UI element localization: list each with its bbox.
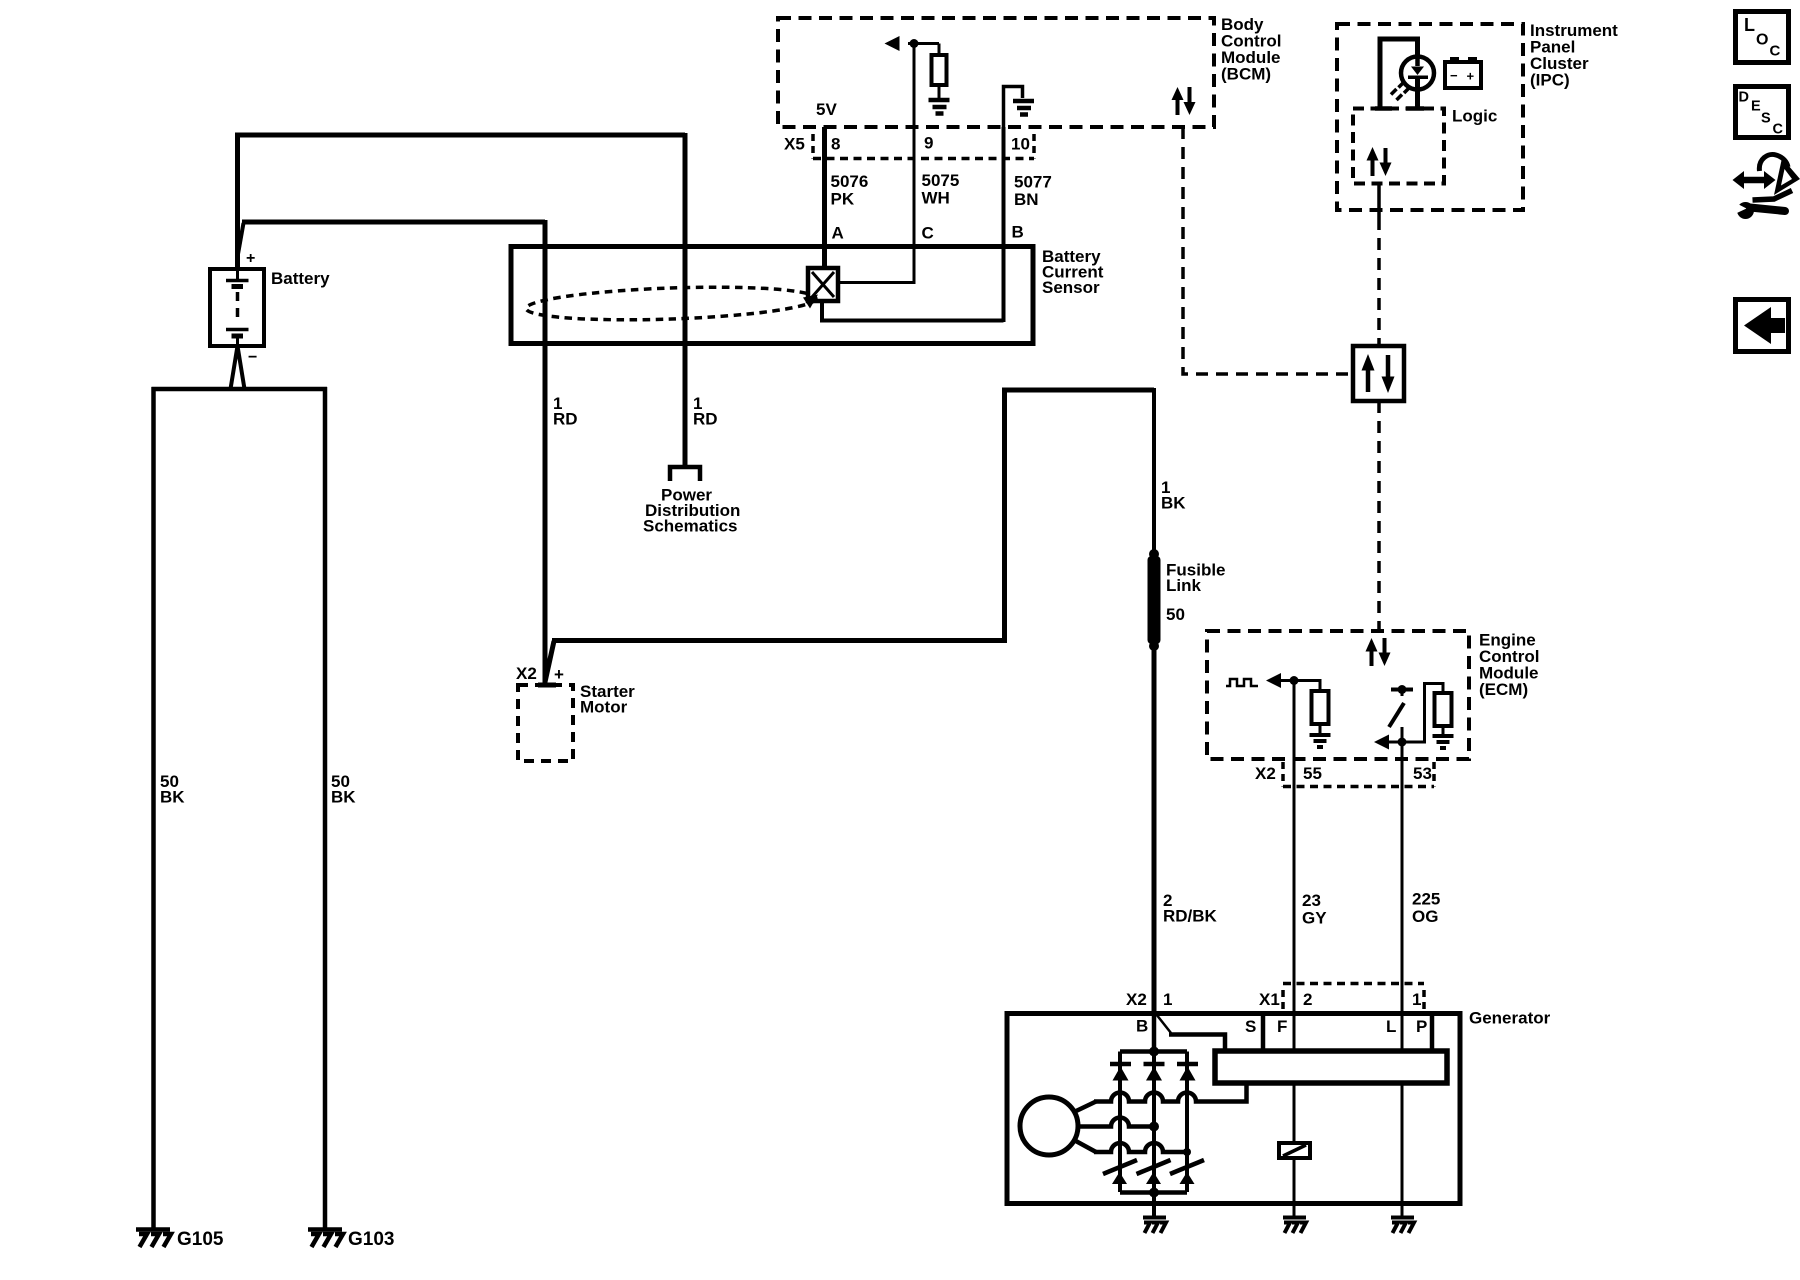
serial box arrows bbox=[1362, 354, 1395, 393]
bottom avalanche diode 3 bbox=[1170, 1160, 1204, 1184]
battery internal dashed line bbox=[236, 292, 240, 324]
svg-text:E: E bbox=[1751, 99, 1761, 115]
junction dot fusible link top bbox=[1149, 549, 1159, 559]
BCM internal wire arrow to junction bbox=[908, 42, 939, 45]
LED light rays bbox=[1399, 82, 1405, 88]
wire: pin 10 (5077 BN) BCM to sensor B bbox=[1002, 127, 1006, 322]
ECM connector dashed outline bbox=[1281, 762, 1285, 787]
DESC icon box bbox=[1736, 87, 1789, 138]
svg-text:225: 225 bbox=[1412, 890, 1440, 909]
battery negative lead bbox=[236, 337, 239, 347]
svg-text:−: − bbox=[1450, 68, 1458, 83]
svg-text:8: 8 bbox=[831, 135, 840, 154]
svg-text:S: S bbox=[1761, 111, 1771, 127]
wire: drop to fusible link 1 BK bbox=[1152, 388, 1156, 553]
svg-text:+: + bbox=[1467, 69, 1475, 84]
svg-text:Generator: Generator bbox=[1469, 1009, 1551, 1028]
wire: starter branch slant bbox=[545, 641, 554, 682]
generator ground 2 (field) bbox=[1283, 1218, 1306, 1234]
svg-text:X1: X1 bbox=[1259, 990, 1280, 1009]
wire: pin 9 (5075 WH) BCM to sensor C bbox=[913, 43, 916, 284]
sensor element box with X bbox=[808, 268, 838, 301]
rotor circle bbox=[1020, 1097, 1078, 1155]
wire: battery cable down to starter (1 RD) bbox=[543, 220, 548, 684]
junction dot pin 55 bbox=[1290, 676, 1299, 685]
internal B sense diagonal bbox=[1156, 1014, 1171, 1033]
generator ground 1 (diode bridge) bbox=[1143, 1218, 1166, 1234]
svg-text:5077: 5077 bbox=[1014, 173, 1052, 192]
wire: pin10 internal ground L bbox=[1004, 87, 1023, 129]
starter motor dashed box bbox=[518, 685, 573, 761]
svg-text:X2: X2 bbox=[516, 664, 537, 683]
service icon: double arrow bbox=[1733, 171, 1776, 189]
wire: sensor C internal to element bbox=[838, 281, 914, 284]
svg-text:Battery: Battery bbox=[271, 269, 330, 288]
svg-text:53: 53 bbox=[1413, 764, 1432, 783]
svg-text:G105: G105 bbox=[177, 1229, 224, 1250]
battery top cell short plate bbox=[232, 284, 244, 289]
diode column 1 bbox=[1118, 1052, 1122, 1193]
service icon: loop arrow hook bbox=[1759, 154, 1788, 171]
ECM ground symbol (left) bbox=[1310, 735, 1331, 747]
wire: 23 GY ECM pin 55 to generator bbox=[1293, 787, 1296, 1014]
svg-text:(ECM): (ECM) bbox=[1479, 680, 1528, 699]
svg-text:Schematics: Schematics bbox=[643, 517, 738, 536]
generator ground 3 (L/P) bbox=[1391, 1218, 1414, 1234]
svg-text:G103: G103 bbox=[348, 1229, 394, 1250]
svg-text:L: L bbox=[1744, 15, 1755, 35]
svg-text:1: 1 bbox=[1163, 990, 1172, 1009]
stator winding phase B (middle) bbox=[1077, 1118, 1154, 1127]
wire: regulator to field bbox=[1293, 1083, 1296, 1143]
generator box bbox=[1007, 1014, 1460, 1204]
battery plus terminal lead bbox=[236, 269, 239, 279]
ground G105 symbol bbox=[136, 1230, 171, 1248]
wire: battery negative crowsfoot right bbox=[238, 346, 245, 389]
svg-text:F: F bbox=[1277, 1017, 1287, 1036]
svg-text:(BCM): (BCM) bbox=[1221, 65, 1271, 84]
diode column 3 bbox=[1185, 1052, 1189, 1193]
BCM internal arrow (signal to logic) bbox=[885, 36, 900, 51]
svg-text:X2: X2 bbox=[1255, 764, 1276, 783]
svg-text:BN: BN bbox=[1014, 190, 1039, 209]
svg-text:P: P bbox=[1416, 1017, 1427, 1036]
top diode 1 bbox=[1110, 1064, 1131, 1081]
diode bridge top bus bbox=[1120, 1049, 1187, 1054]
junction dot pin9 sense bbox=[910, 39, 919, 48]
wire: field to case ground bbox=[1293, 1158, 1296, 1216]
ECM resistor (pin 55) bbox=[1312, 691, 1329, 724]
battery bottom cell short plate bbox=[232, 334, 244, 339]
fusible link 50 body bbox=[1148, 556, 1161, 644]
voltage regulator box bbox=[1215, 1051, 1447, 1083]
svg-text:Link: Link bbox=[1166, 576, 1201, 595]
bottom avalanche diode 1 bbox=[1103, 1160, 1137, 1184]
svg-text:WH: WH bbox=[922, 189, 950, 208]
LED down-arrow inside lamp bbox=[1415, 56, 1420, 66]
svg-text:10: 10 bbox=[1011, 135, 1030, 154]
sensor pickup arrowhead bbox=[803, 295, 818, 309]
wire: battery positive to top rail bbox=[235, 135, 240, 269]
ECM PWM arrow bbox=[1266, 673, 1281, 688]
svg-text:RD: RD bbox=[553, 410, 578, 429]
svg-text:O: O bbox=[1756, 32, 1768, 49]
BCM module dashed box bbox=[778, 18, 1214, 127]
svg-text:PK: PK bbox=[831, 190, 855, 209]
svg-text:(IPC): (IPC) bbox=[1530, 71, 1570, 90]
svg-text:+: + bbox=[554, 665, 564, 684]
wire: L/P through regulator bbox=[1401, 1014, 1404, 1051]
wire: 225 OG ECM pin 53 to generator bbox=[1401, 787, 1404, 1014]
svg-text:5V: 5V bbox=[816, 100, 837, 119]
IPC module dashed box bbox=[1337, 24, 1523, 210]
wire: resistor to ground right bbox=[1442, 726, 1445, 734]
rotor lead upper bbox=[1074, 1102, 1096, 1113]
back arrow icon box bbox=[1736, 300, 1789, 352]
wire: IPC logic to module edge bbox=[1377, 184, 1381, 219]
svg-text:9: 9 bbox=[924, 134, 933, 153]
svg-text:BK: BK bbox=[160, 788, 185, 807]
bottom avalanche diode 2 bbox=[1137, 1160, 1171, 1184]
wire: upper rail to fusible link bbox=[1002, 388, 1154, 393]
wire: ground bus horizontal bbox=[152, 387, 328, 392]
wire: resistor to ground bbox=[1319, 724, 1322, 733]
wire: arrow to junction to resistor corner bbox=[1279, 681, 1320, 692]
svg-text:X2: X2 bbox=[1126, 990, 1147, 1009]
junction dot fusible link bottom bbox=[1149, 641, 1159, 651]
wire: junction down to resistor bbox=[938, 44, 941, 57]
svg-text:L: L bbox=[1386, 1017, 1396, 1036]
lamp lead lower bbox=[1415, 79, 1420, 107]
terminal separator S|F bbox=[1261, 1014, 1266, 1051]
wire: sensor B internal path bbox=[822, 301, 1004, 321]
IPC serial data arrows bbox=[1367, 147, 1392, 176]
ECM resistor (pin 53) bbox=[1435, 693, 1452, 726]
LED cathode bar bbox=[1408, 76, 1428, 80]
BCM serial data arrows bbox=[1172, 87, 1196, 115]
wire: top rail to sensor feed bbox=[235, 133, 685, 138]
serial data dashed wire IPC down bbox=[1377, 218, 1381, 346]
svg-text:5076: 5076 bbox=[831, 172, 869, 191]
battery current sensor box bbox=[511, 247, 1033, 344]
wire: 2 RD/BK fusible link to generator bbox=[1152, 646, 1157, 1014]
ECM switch lever bbox=[1389, 703, 1404, 727]
top diode 2 bbox=[1144, 1064, 1165, 1081]
svg-text:Motor: Motor bbox=[580, 698, 628, 717]
ECM pin53 sense arrow bbox=[1374, 735, 1389, 750]
wire: pin53 branch to resistor bbox=[1387, 684, 1443, 743]
top diode 3 bbox=[1177, 1064, 1198, 1081]
ECM serial data arrows bbox=[1366, 638, 1391, 666]
wire: B cable into diode bridge bbox=[1152, 1014, 1157, 1051]
terminal separator P right bbox=[1430, 1014, 1435, 1051]
X5 connector dashed outline bbox=[811, 134, 815, 159]
junction dot pin 53 bbox=[1398, 738, 1407, 747]
ECM switch fixed contact bar bbox=[1391, 688, 1413, 692]
wire: second rail from battery positive bbox=[238, 223, 244, 254]
indicator lamp circle bbox=[1401, 57, 1434, 90]
wire: right ground drop 50 BK bbox=[323, 387, 328, 1228]
diode bridge bottom bus bbox=[1120, 1190, 1187, 1195]
sensor pickup dashed ellipse bbox=[526, 283, 817, 324]
battery B1 box bbox=[210, 269, 264, 346]
battery top cell long plate bbox=[226, 279, 249, 283]
BCM ground symbol (resistor) bbox=[929, 100, 950, 114]
X1 connector dashed outline bbox=[1281, 990, 1285, 1012]
svg-text:C: C bbox=[922, 224, 934, 243]
svg-text:55: 55 bbox=[1303, 764, 1322, 783]
wire: second rail horizontal bbox=[242, 220, 545, 225]
svg-text:RD: RD bbox=[693, 410, 718, 429]
svg-text:OG: OG bbox=[1412, 907, 1438, 926]
service icon: arrow tail bbox=[1753, 191, 1793, 201]
stator winding phase C (lower) bbox=[1094, 1143, 1187, 1152]
IPC indicator circuit loop bbox=[1380, 39, 1418, 107]
battery bottom cell long plate bbox=[226, 328, 249, 332]
svg-text:−: − bbox=[248, 349, 257, 366]
svg-text:BK: BK bbox=[331, 788, 356, 807]
serial data dashed wire BCM down bbox=[1183, 127, 1353, 374]
svg-text:S: S bbox=[1245, 1017, 1256, 1036]
starter motor terminal bar bbox=[538, 683, 556, 688]
wire: pin 55 down bbox=[1293, 680, 1296, 787]
stator winding phase A (to regulator) bbox=[1094, 1084, 1247, 1102]
indicator loop feet bbox=[1375, 106, 1392, 111]
service icon: wrench bbox=[1737, 202, 1754, 219]
power distribution off-page connector bbox=[670, 467, 700, 481]
wire: battery negative crowsfoot left bbox=[231, 346, 238, 389]
service icon: loop arrowhead bbox=[1774, 158, 1800, 195]
svg-text:B: B bbox=[1136, 1017, 1148, 1036]
diode column 2 (B) bbox=[1152, 1052, 1156, 1193]
svg-text:GY: GY bbox=[1302, 909, 1327, 928]
wire: F through regulator bbox=[1293, 1014, 1296, 1051]
svg-text:2: 2 bbox=[1303, 990, 1312, 1009]
wire: riser to upper rail bbox=[1002, 390, 1007, 643]
svg-text:5075: 5075 bbox=[922, 171, 960, 190]
svg-text:C: C bbox=[1770, 43, 1781, 60]
logic dashed box bbox=[1353, 109, 1444, 184]
BCM ground symbol (pin10) bbox=[1013, 101, 1034, 115]
ECM PWM signal symbol bbox=[1226, 679, 1258, 686]
ECM ground symbol (right) bbox=[1433, 736, 1454, 748]
svg-text:A: A bbox=[832, 224, 844, 243]
svg-text:C: C bbox=[1773, 122, 1784, 138]
wire: switch to pin 53 junction bbox=[1401, 727, 1404, 787]
serial data dashed wire to ECM bbox=[1377, 401, 1381, 631]
svg-text:50: 50 bbox=[1166, 605, 1185, 624]
ECM module dashed box bbox=[1207, 631, 1469, 759]
svg-text:Logic: Logic bbox=[1452, 107, 1497, 126]
wire: pin 8 (5076 PK) BCM to sensor A bbox=[822, 127, 827, 270]
LOC icon box bbox=[1736, 12, 1789, 63]
battery telltale icon bbox=[1445, 62, 1481, 88]
wire: feed down to power distribution (1 RD) bbox=[683, 133, 688, 465]
svg-text:RD/BK: RD/BK bbox=[1163, 907, 1218, 926]
ground G103 symbol bbox=[308, 1230, 343, 1248]
field winding symbol bbox=[1279, 1143, 1310, 1158]
svg-text:D: D bbox=[1739, 90, 1749, 106]
junction dot bottom bus bbox=[1149, 1188, 1159, 1198]
BCM pull-up resistor bbox=[932, 55, 947, 85]
wire: L/P below regulator to case bbox=[1401, 1083, 1404, 1216]
svg-text:1: 1 bbox=[1412, 990, 1421, 1009]
svg-text:23: 23 bbox=[1302, 891, 1321, 910]
junction dot bus B bbox=[1149, 1047, 1159, 1057]
svg-text:+: + bbox=[246, 250, 255, 267]
svg-text:X5: X5 bbox=[784, 135, 805, 154]
svg-text:B: B bbox=[1012, 223, 1024, 242]
wire: diode bridge to case ground bbox=[1152, 1192, 1156, 1216]
rotor lead lower bbox=[1074, 1140, 1096, 1152]
wire: resistor to ground bbox=[938, 85, 941, 98]
serial data junction box bbox=[1353, 346, 1404, 401]
internal B sense path to regulator bbox=[1169, 1035, 1225, 1052]
svg-text:BK: BK bbox=[1161, 494, 1186, 513]
back arrow glyph bbox=[1744, 307, 1785, 344]
wire: starter rail horizontal bbox=[552, 638, 1005, 643]
wire: left ground drop 50 BK bbox=[151, 387, 156, 1228]
svg-text:Sensor: Sensor bbox=[1042, 278, 1100, 297]
